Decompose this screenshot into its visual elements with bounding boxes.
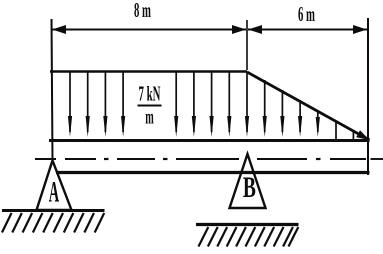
uniform load arrows: [68, 72, 249, 138]
extension line middle: [246, 20, 248, 70]
dimension line 8 m: [52, 29, 246, 31]
ground line at B: [196, 223, 299, 226]
ground line at A: [2, 209, 105, 212]
beam bottom line: [56, 171, 370, 174]
arrowhead dim 8m right: [232, 25, 246, 34]
support B triangle: [230, 154, 266, 208]
axis dash 6: [330, 158, 366, 160]
hatching at B: [199, 227, 299, 247]
axis dash 2: [65, 158, 96, 160]
dimension line 6 m: [248, 29, 367, 31]
beam centerline (dash-dot axis): [35, 158, 383, 160]
extension line right / beam right edge: [367, 18, 369, 175]
load arrow 1: [68, 72, 72, 138]
tri arrow 3: [298, 100, 302, 137]
svg-text:6 m: 6 m: [298, 2, 315, 26]
load arrow 7: [210, 72, 214, 138]
tri arrow 4: [316, 111, 320, 138]
load arrow 3: [103, 72, 107, 138]
axis dash 1: [35, 158, 56, 160]
svg-text:A: A: [49, 176, 60, 209]
axis dot 3: [316, 158, 321, 160]
svg-text:8 m: 8 m: [134, 0, 151, 22]
svg-text:B: B: [243, 171, 256, 204]
tri arrow 2: [280, 90, 284, 137]
load arrow 2: [86, 72, 90, 138]
load arrow 8: [227, 72, 231, 138]
arrowhead dim 6m right: [353, 25, 367, 34]
arrowhead dim 8m left: [52, 25, 66, 34]
load arrow 5: [174, 72, 178, 138]
arrowhead dim 6m left: [248, 25, 262, 34]
tri arrow 1: [263, 80, 267, 137]
load arrow 4: [121, 72, 125, 138]
beam top line: [49, 139, 370, 142]
support A triangle: [37, 161, 72, 211]
distributed load top line: [50, 70, 247, 72]
load arrow 9: [245, 72, 249, 138]
triangular load arrows: [263, 80, 370, 140]
hatching at A: [2, 213, 104, 233]
label 7 kN / m: [138, 82, 162, 129]
tri arrow 6: [352, 131, 354, 139]
svg-text:7 kN: 7 kN: [139, 82, 161, 106]
axis dash 5: [257, 158, 307, 160]
extension line left: [52, 19, 53, 160]
load arrow 6: [192, 72, 196, 138]
axis dash 4: [176, 158, 239, 160]
tri arrow 5: [335, 122, 337, 140]
axis dot 2: [163, 158, 168, 160]
axis dash 7: [371, 158, 383, 160]
axis dash 3: [117, 158, 155, 160]
axis dot 1: [104, 158, 109, 160]
triangular load slope line: [247, 72, 370, 140]
arrowhead at end of slope: [356, 130, 369, 140]
svg-text:m: m: [145, 104, 154, 128]
